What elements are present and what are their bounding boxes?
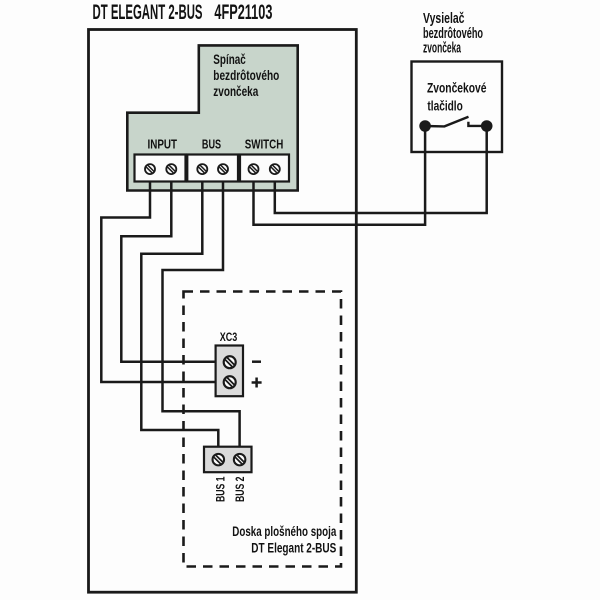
svg-text:bezdrôtového: bezdrôtového (213, 67, 279, 83)
svg-text:Doska plošného spoja: Doska plošného spoja (232, 523, 336, 539)
svg-text:INPUT: INPUT (148, 136, 178, 151)
svg-text:BUS 2: BUS 2 (235, 477, 247, 503)
svg-text:XC3: XC3 (220, 330, 238, 344)
svg-text:BUS: BUS (202, 136, 222, 151)
svg-text:SWITCH: SWITCH (245, 136, 284, 151)
svg-text:DT Elegant 2-BUS: DT Elegant 2-BUS (251, 539, 336, 555)
svg-text:Zvončekové: Zvončekové (427, 81, 487, 96)
svg-text:Spínač: Spínač (213, 51, 246, 67)
svg-text:zvončeka: zvončeka (213, 83, 258, 99)
svg-text:4FP21103: 4FP21103 (214, 0, 272, 24)
svg-text:DT ELEGANT 2-BUS: DT ELEGANT 2-BUS (93, 0, 203, 24)
svg-text:BUS 1: BUS 1 (216, 476, 228, 502)
svg-text:tlačidlo: tlačidlo (427, 99, 462, 114)
svg-text:zvončeka: zvončeka (423, 39, 461, 56)
